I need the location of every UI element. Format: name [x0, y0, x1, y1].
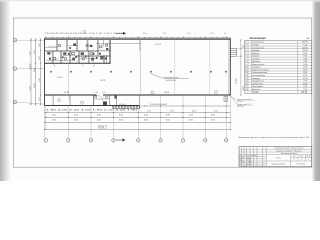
svg-text:S=453.90 м2: S=453.90 м2 — [166, 80, 176, 82]
svg-text:Электрощитовая: Электрощитовая — [252, 72, 267, 74]
bottom dim texts — [46, 104, 218, 129]
svg-text:1: 1 — [245, 42, 246, 44]
svg-text:10.99: 10.99 — [57, 77, 63, 79]
svg-text:Утв: Утв — [239, 164, 241, 166]
svg-text:Кабинет: Кабинет — [252, 56, 259, 58]
lower row partitions (double) — [52, 51, 104, 64]
right gray edge — [312, 0, 320, 181]
svg-text:4: 4 — [245, 50, 246, 52]
svg-text:3.10: 3.10 — [303, 58, 307, 60]
upper row partitions (double) — [57, 40, 104, 56]
svg-text:18.20: 18.20 — [303, 83, 308, 85]
svg-text:4.50: 4.50 — [187, 33, 191, 35]
left wall — [44, 38, 46, 105]
svg-text:Торговый зал пом.1: Торговый зал пом.1 — [164, 76, 179, 79]
svg-text:15: 15 — [245, 81, 247, 83]
svg-text:ООО Проект: ООО Проект — [296, 163, 306, 165]
grid — [245, 40, 312, 93]
horizontal rows full width — [239, 148, 312, 150]
corridor wall right of cluster — [96, 43, 140, 45]
svg-text:h=0.15 м: h=0.15 м — [237, 106, 243, 108]
cluster fixtures — [48, 43, 109, 63]
svg-text:13.400: 13.400 — [235, 79, 237, 85]
extra subdivision lines — [45, 47, 58, 49]
svg-text:Общая: Общая — [252, 92, 258, 94]
door opening in wall — [97, 94, 104, 95]
svg-text:Санузел: Санузел — [252, 58, 259, 60]
svg-text:Козлов: Козлов — [247, 164, 252, 166]
main divider — [239, 147, 312, 167]
svg-text:453.90: 453.90 — [302, 42, 308, 44]
column marks row — [50, 71, 227, 73]
door arcs into hall — [51, 63, 55, 67]
svg-text:1.50: 1.50 — [95, 92, 98, 94]
room number circles — [58, 91, 218, 105]
svg-text:7: 7 — [245, 58, 246, 60]
svg-text:5: 5 — [245, 53, 246, 55]
entrance porch — [117, 95, 140, 105]
svg-text:5.40: 5.40 — [303, 45, 307, 47]
page background — [0, 0, 320, 181]
svg-text:4.50: 4.50 — [166, 114, 170, 116]
svg-text:Н.контр: Н.контр — [239, 162, 244, 164]
svg-text:4.50: 4.50 — [189, 114, 193, 116]
extension lines + ticks top — [46, 36, 226, 38]
svg-text:5.30: 5.30 — [39, 79, 41, 83]
svg-text:2.10: 2.10 — [39, 98, 41, 102]
svg-text:13: 13 — [245, 75, 247, 77]
svg-text:4.50: 4.50 — [211, 114, 215, 116]
outside stair right — [230, 49, 236, 57]
svg-text:10.90: 10.90 — [303, 78, 308, 80]
svg-text:18: 18 — [245, 89, 247, 91]
svg-text:4.50: 4.50 — [74, 114, 78, 116]
svg-text:h=2.110: h=2.110 — [155, 44, 161, 46]
svg-text:Пров: Пров — [239, 160, 242, 162]
svg-text:1.35 1.50 1.35 1.50 1.20 1.35: 1.35 1.50 1.35 1.50 1.20 1.35 1.50 1.35 … — [45, 33, 87, 35]
svg-text:b=1.0 м: b=1.0 м — [237, 101, 243, 103]
right wall double — [229, 38, 231, 95]
svg-text:Лист: Лист — [300, 156, 303, 158]
svg-text:Кладовая инв.: Кладовая инв. — [252, 81, 265, 83]
svg-text:1.90 4.05 2.20 4.05 1.90 2.20: 1.90 4.05 2.20 4.05 1.90 2.20 4.05 1.90 — [46, 110, 137, 112]
svg-text:Загрузочная: Загрузочная — [252, 83, 263, 85]
svg-text:4.50: 4.50 — [119, 120, 123, 122]
svg-text:Листов: Листов — [306, 156, 311, 158]
svg-text:Торговый зал: Торговый зал — [252, 46, 264, 49]
svg-text:6.00: 6.00 — [34, 69, 36, 73]
svg-text:4.50: 4.50 — [52, 120, 56, 122]
left block lower rows — [239, 156, 266, 158]
faint axis verticals in hall — [68, 40, 210, 95]
annex bottom wall — [45, 104, 140, 106]
corner step bottom right — [224, 97, 228, 101]
svg-text:Дата: Дата — [254, 155, 257, 157]
svg-text:План: План — [276, 158, 280, 160]
svg-text:4.50: 4.50 — [119, 114, 123, 116]
leader note in hall — [151, 74, 190, 83]
svg-text:36.00: 36.00 — [99, 127, 105, 129]
svg-text:5.70: 5.70 — [29, 52, 31, 56]
svg-text:10: 10 — [245, 67, 247, 69]
svg-text:4.50: 4.50 — [170, 110, 174, 112]
right mini grid — [290, 155, 292, 167]
svg-text:3: 3 — [245, 47, 246, 49]
svg-text:4.50 4.50 4.50: 4.50 4.50 4.50 4.20 — [150, 104, 167, 106]
svg-text:11: 11 — [245, 70, 247, 72]
svg-text:4.50: 4.50 — [192, 110, 196, 112]
cluster right wall double — [109, 40, 111, 64]
svg-text:Экспликация: Экспликация — [250, 37, 267, 40]
svg-text:Душевая: Душевая — [252, 61, 260, 63]
drawing frame — [13, 18, 311, 167]
svg-text:1.80: 1.80 — [83, 33, 86, 35]
svg-text:4.50: 4.50 — [97, 114, 101, 116]
svg-text:6.70: 6.70 — [29, 87, 31, 91]
svg-text:4.50: 4.50 — [144, 114, 148, 116]
svg-text:Кладовая: Кладовая — [252, 67, 260, 69]
svg-text:Маркировку изделий и элементов: Маркировку изделий и элементов выполнять… — [239, 136, 310, 139]
svg-text:Р: Р — [294, 159, 295, 161]
title block texts — [272, 147, 311, 166]
section arrow top — [116, 32, 126, 35]
svg-text:15.00х21: 15.00х21 — [119, 104, 126, 106]
svg-text:2.30: 2.30 — [39, 44, 41, 48]
witness lines down — [45, 95, 231, 138]
row texts — [245, 41, 307, 94]
svg-text:4.50: 4.50 — [52, 114, 56, 116]
svg-text:Пандус уклон 1:10: Пандус уклон 1:10 — [237, 104, 251, 106]
svg-text:15.60: 15.60 — [303, 50, 308, 52]
svg-text:Петров: Петров — [247, 160, 252, 162]
svg-text:17: 17 — [245, 86, 247, 88]
svg-text:16.79: 16.79 — [100, 80, 106, 82]
svg-text:2.50: 2.50 — [39, 57, 41, 61]
entrance steps hatched block — [113, 106, 140, 109]
svg-text:6: 6 — [245, 56, 246, 58]
svg-text:Комната перс.: Комната перс. — [252, 64, 265, 66]
hall labels — [57, 44, 170, 106]
svg-text:4.50: 4.50 — [143, 33, 147, 35]
svg-text:Торговый зал: Торговый зал — [252, 41, 264, 44]
left block columns — [241, 147, 243, 167]
svg-text:Сидоров: Сидоров — [247, 162, 253, 164]
svg-text:Отмостка из бетона: Отмостка из бетона — [237, 99, 252, 101]
svg-text:4.50: 4.50 — [210, 33, 214, 35]
top dim text row — [45, 31, 227, 35]
svg-text:Кабинет: Кабинет — [252, 53, 259, 55]
ticks on bottom dim lines — [44, 105, 231, 130]
svg-text:8: 8 — [245, 61, 246, 63]
svg-text:3.0: 3.0 — [224, 33, 227, 35]
svg-text:4.50: 4.50 — [211, 120, 215, 122]
svg-text:смешанных товаров в г. Никольс: смешанных товаров в г. Никольске — [276, 150, 302, 152]
svg-text:Изм: Изм — [239, 155, 242, 157]
svg-text:12: 12 — [245, 72, 247, 74]
svg-text:4.50: 4.50 — [97, 120, 101, 122]
svg-text:11.20: 11.20 — [303, 53, 308, 55]
svg-text:2: 2 — [245, 45, 246, 47]
svg-text:2.40: 2.40 — [34, 51, 36, 55]
svg-text:1.50: 1.50 — [102, 92, 105, 94]
svg-text:14.70: 14.70 — [303, 70, 308, 72]
svg-text:4.50: 4.50 — [74, 120, 78, 122]
top wall double line — [45, 37, 231, 39]
svg-text:36.00: 36.00 — [164, 92, 170, 94]
svg-text:Л: Л — [244, 155, 245, 157]
left gray edge — [0, 0, 11, 181]
svg-text:Капремонт-проект: Капремонт-проект — [272, 163, 286, 165]
annex fixtures — [95, 96, 117, 105]
section arrow bottom — [116, 139, 126, 142]
svg-text:9.80: 9.80 — [303, 56, 307, 58]
svg-text:12.00: 12.00 — [64, 92, 70, 94]
svg-text:7.50: 7.50 — [303, 86, 307, 88]
svg-text:Подсобное помещ.: Подсобное помещ. — [252, 70, 269, 72]
svg-text:6.20: 6.20 — [303, 89, 307, 91]
svg-text:Венткамера: Венткамера — [252, 86, 264, 88]
svg-text:8.30: 8.30 — [303, 67, 307, 69]
left dim chains — [31, 38, 41, 106]
svg-text:Моечная: Моечная — [252, 89, 260, 91]
svg-text:4.20: 4.20 — [303, 72, 307, 74]
svg-text:12.40: 12.40 — [303, 64, 308, 66]
svg-text:4.50: 4.50 — [144, 120, 148, 122]
svg-text:4.50: 4.50 — [189, 120, 193, 122]
top gray edge — [0, 0, 320, 3]
leader notes bottom right — [229, 96, 255, 108]
cluster mid horizontal — [45, 50, 111, 52]
svg-text:Иванов: Иванов — [247, 157, 252, 159]
svg-text:8: 8 — [308, 159, 309, 161]
svg-text:4.50: 4.50 — [166, 120, 170, 122]
svg-text:Тамбур: Тамбур — [252, 45, 258, 47]
svg-text:4.50: 4.50 — [163, 33, 167, 35]
short right-part dim line — [45, 106, 231, 129]
svg-text:14: 14 — [245, 78, 247, 80]
svg-text:13.40: 13.40 — [29, 64, 31, 69]
svg-text:9: 9 — [245, 64, 246, 66]
cluster bottom wall — [45, 62, 111, 64]
svg-text:Коридор: Коридор — [252, 50, 259, 52]
svg-text:6.10: 6.10 — [303, 75, 307, 77]
svg-text:4.50: 4.50 — [147, 110, 151, 112]
svg-text:Коридор: Коридор — [252, 78, 259, 80]
bottom main wall — [45, 94, 231, 96]
svg-text:2.90: 2.90 — [303, 61, 307, 63]
svg-text:967.00: 967.00 — [301, 92, 307, 94]
svg-text:Разраб: Разраб — [239, 157, 244, 159]
svg-text:Тепловой узел: Тепловой узел — [252, 74, 265, 77]
svg-text:4.50: 4.50 — [214, 110, 218, 112]
svg-text:16: 16 — [245, 83, 247, 85]
svg-text:5.70: 5.70 — [303, 81, 307, 83]
svg-text:229.30: 229.30 — [302, 47, 308, 49]
svg-text:13.00: 13.00 — [34, 84, 36, 89]
